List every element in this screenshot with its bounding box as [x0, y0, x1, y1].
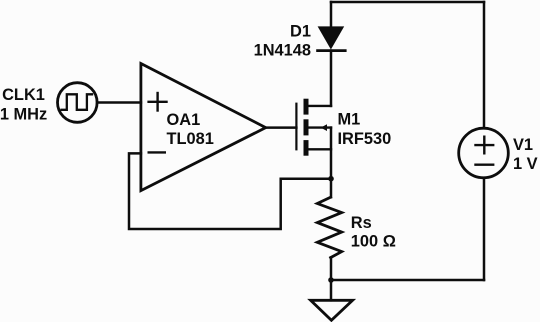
- svg-text:Rs: Rs: [351, 214, 372, 232]
- svg-text:CLK1: CLK1: [2, 86, 45, 104]
- wire M1 source down to node A: [330, 128, 333, 179]
- resistor Rs: [317, 179, 341, 280]
- svg-text:OA1: OA1: [167, 111, 201, 129]
- label Rs 100 ohm: [351, 214, 396, 251]
- svg-text:D1: D1: [290, 23, 311, 41]
- svg-text:1 V: 1 V: [513, 155, 538, 173]
- ground: [311, 300, 353, 320]
- label CLK1 1 MHz: [0, 86, 47, 123]
- wire CLK1 output to op-amp + input: [97, 101, 141, 104]
- svg-text:1 MHz: 1 MHz: [0, 105, 47, 123]
- label OA1 TL081: [167, 111, 214, 148]
- svg-text:M1: M1: [338, 111, 361, 129]
- wire top rail: [331, 1, 484, 4]
- wire V1 - terminal down to bottom rail: [483, 178, 486, 280]
- diode D1: [318, 26, 346, 50]
- wire op-amp output to M1 gate: [266, 126, 297, 129]
- wire M1 drain up to diode cathode: [330, 51, 333, 106]
- wire node B down to ground: [330, 280, 333, 300]
- svg-text:TL081: TL081: [167, 130, 214, 148]
- svg-text:V1: V1: [513, 136, 533, 154]
- label D1 1N4148: [254, 23, 311, 60]
- transistor M1 n-channel MOSFET: [296, 99, 331, 156]
- wire feedback from node A to op-amp - input: [129, 153, 331, 229]
- op-amp OA1: [141, 64, 266, 191]
- voltage source CLK1 square-wave generator: [58, 83, 98, 123]
- node A junction dot (M1 source / feedback / Rs top): [328, 176, 334, 182]
- voltage source V1: [459, 128, 509, 178]
- wire top rail down to V1 + terminal: [483, 2, 486, 128]
- svg-text:1N4148: 1N4148: [254, 42, 311, 60]
- svg-text:100 Ω: 100 Ω: [351, 233, 396, 251]
- wire bottom rail from node B to V1 branch: [331, 279, 484, 282]
- wire diode anode to top rail: [330, 2, 333, 26]
- label V1 1 V: [513, 136, 538, 173]
- svg-text:IRF530: IRF530: [338, 130, 392, 148]
- node B junction dot (Rs bottom / ground / bottom rail): [328, 277, 334, 283]
- label M1 IRF530: [338, 111, 392, 149]
